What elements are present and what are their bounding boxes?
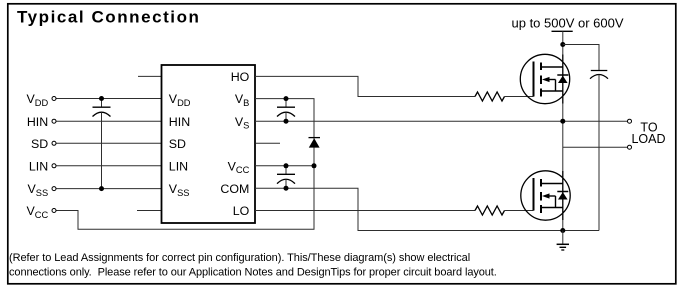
- svg-text:COM: COM: [220, 182, 249, 196]
- svg-text:LIN: LIN: [169, 159, 188, 173]
- svg-text:SD: SD: [31, 137, 48, 151]
- svg-text:connections only. Please refe: connections only. Please refer to our Ap…: [9, 267, 497, 279]
- svg-text:up to 500V or 600V: up to 500V or 600V: [512, 16, 624, 31]
- svg-text:SD: SD: [169, 137, 186, 151]
- svg-text:HIN: HIN: [169, 115, 190, 129]
- svg-text:HIN: HIN: [27, 115, 48, 129]
- svg-text:(Refer to Lead Assignments for: (Refer to Lead Assignments for correct p…: [9, 252, 470, 264]
- svg-text:LOAD: LOAD: [631, 132, 665, 146]
- svg-text:LO: LO: [233, 204, 250, 218]
- svg-text:Typical Connection: Typical Connection: [17, 7, 200, 26]
- svg-text:LIN: LIN: [29, 159, 48, 173]
- svg-text:HO: HO: [231, 70, 250, 84]
